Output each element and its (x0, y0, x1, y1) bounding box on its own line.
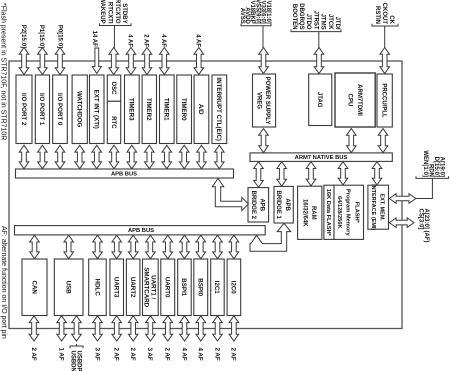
svg-text:BSPI0: BSPI0 (197, 278, 204, 296)
svg-text:JTDI: JTDI (334, 17, 340, 30)
wire JTAG pins to JTAG (318, 33, 320, 48)
arrow APB bus to block at x=34.5 (30, 235, 40, 259)
svg-text:CPU: CPU (346, 94, 352, 107)
label 4 AF timer1 (160, 34, 166, 47)
arrow block to APB bus at x=219.3 (215, 145, 225, 168)
arrow block to APB bus at x=114.0 (109, 145, 119, 168)
arrow CK to PRCCU (380, 48, 390, 74)
svg-text:3 AF: 3 AF (93, 348, 100, 361)
arrow PRCCU to native bus (378, 129, 388, 153)
label group JTAG pins (291, 3, 341, 33)
block USB (54, 259, 83, 316)
arrow bottom pins at x=133.2 (128, 316, 138, 341)
svg-text:JTCK: JTCK (327, 14, 333, 30)
svg-text:CK: CK (388, 15, 394, 24)
label group A[23:0] CS[3:0] (418, 209, 429, 243)
arrow 2AF to TIMER2 (142, 48, 152, 75)
label 3 AF at x=97.5 (93, 348, 100, 361)
block 16K Data FLASH (324, 185, 334, 239)
label 2 AF at x=167.8 (164, 348, 171, 361)
svg-text:2 AF: 2 AF (30, 348, 37, 361)
bus ARM7 NATIVE BUS bar (250, 153, 392, 162)
label group V18 V33 VSS supplies (239, 0, 271, 28)
arrow block to APB bus at x=96.75 (92, 145, 102, 168)
label 4 AF adc (195, 34, 201, 47)
block UART3 (110, 259, 124, 316)
svg-text:OSC: OSC (110, 81, 116, 95)
svg-text:PRCCU/PLL: PRCCU/PLL (381, 83, 387, 118)
svg-text:UART0: UART0 (164, 277, 171, 298)
arrow bottom pins at x=150.4 (146, 316, 156, 341)
svg-text:2 AF: 2 AF (113, 348, 120, 361)
block I2C1 (211, 259, 225, 316)
svg-text:1 AF: 1 AF (57, 348, 64, 361)
svg-text:ARM7TDMI: ARM7TDMI (356, 84, 362, 116)
svg-text:RTCXTO: RTCXTO (114, 0, 120, 24)
svg-text:4 AF: 4 AF (195, 34, 201, 47)
svg-text:P0[15:0]: P0[15:0] (56, 25, 62, 48)
svg-text:BOOTEN: BOOTEN (291, 4, 297, 30)
arrow block to APB bus at x=24.0 (19, 145, 29, 168)
svg-text:APB: APB (259, 198, 265, 211)
svg-text:JTRST: JTRST (312, 11, 318, 30)
arrow block to APB bus at x=166.8 (162, 145, 172, 168)
arrow elbow upper APB bus to APB BRIDGE 2 (212, 179, 248, 211)
label 2 AF at x=217.5 (213, 348, 220, 361)
svg-text:P1[15:0]: P1[15:0] (38, 25, 44, 48)
svg-text:I2C0: I2C0 (230, 281, 237, 295)
svg-text:3 AF: 3 AF (146, 348, 153, 361)
wire V18 group to POWER SUPPLY (262, 27, 264, 48)
svg-text:JTAG: JTAG (316, 92, 322, 108)
arrow native bus to EMI (372, 162, 382, 185)
label 4 AF at x=200.8 (197, 348, 204, 361)
label group A[19:0] D[15:0] RDN WEN (416, 150, 449, 180)
svg-text:P2[15:0]: P2[15:0] (20, 25, 26, 48)
arrow CPU to native bus (347, 129, 357, 153)
arrow bottom pins at x=97.5 (93, 316, 103, 341)
block TIMER1 (160, 75, 175, 144)
svg-text:2 AF: 2 AF (213, 348, 220, 361)
svg-text:HDLC: HDLC (93, 279, 100, 297)
arrow APB bus to block at x=233.9 (229, 235, 239, 259)
arrow native bus to RAM (306, 162, 316, 186)
svg-text:UART3: UART3 (112, 277, 119, 298)
arrow bottom pins at x=233.9 (229, 316, 239, 341)
label 2 AF at x=34.0 (30, 348, 37, 361)
label 4 AF timer3 (127, 34, 133, 47)
block FLASH Program Memory (334, 185, 364, 239)
arrow EMI external bus upper (389, 194, 416, 204)
arrow bottom pins at x=200.8 (196, 316, 206, 341)
block I2C0 (227, 259, 241, 316)
svg-text:SMARTCARD: SMARTCARD (142, 267, 149, 307)
svg-text:I/O PORT 1: I/O PORT 1 (38, 93, 45, 126)
block UART0 (161, 259, 175, 316)
arrow POWER SUPPLY to native bus (259, 129, 269, 153)
block I/O PORT 1 (35, 75, 49, 144)
block UART1 SMARTCARD (142, 259, 158, 316)
label group USBDP USBDN (69, 344, 83, 371)
svg-text:STDBY: STDBY (121, 3, 127, 23)
label P1[15:0] (38, 25, 44, 48)
label group STDBY RTCXTO RTCXTI WAKEUP (99, 0, 131, 28)
svg-text:USBDN: USBDN (69, 351, 75, 371)
svg-text:A/D: A/D (197, 104, 204, 115)
svg-text:Program Memory: Program Memory (345, 189, 351, 237)
svg-text:RAM: RAM (310, 206, 316, 220)
arrow APB bus to block at x=97.5 (93, 235, 103, 259)
arrow native bus to FLASH (338, 162, 348, 185)
svg-text:VREG: VREG (256, 92, 262, 109)
svg-text:CKOUT: CKOUT (381, 3, 387, 25)
label P2[15:0] (20, 25, 26, 48)
svg-text:4 AF: 4 AF (160, 34, 166, 47)
arrow APB bus to block at x=116.7 (112, 235, 122, 259)
label group CK CKOUT RSTIN (372, 3, 398, 28)
arrow native bus to APB BRIDGE 2 (254, 162, 264, 188)
arrow bottom pins at x=61.6 (57, 316, 67, 341)
block EXT INT XTI (90, 75, 105, 144)
arrow pins P0 to I/O PORT 0 (55, 48, 65, 75)
wire chip boundary rectangle (9, 61, 402, 329)
svg-text:64/128/256K: 64/128/256K (336, 196, 342, 229)
block HDLC (89, 259, 107, 316)
block UART2 (126, 259, 139, 316)
svg-text:BSPI1: BSPI1 (180, 278, 187, 296)
block I/O PORT 2 (16, 75, 32, 144)
svg-text:AVSS: AVSS (239, 8, 245, 24)
arrow pins P2 to I/O PORT 2 (19, 48, 29, 75)
label 2 AF at x=133.2 (129, 348, 136, 361)
svg-text:2 AF: 2 AF (143, 34, 149, 47)
svg-text:APB BUS: APB BUS (111, 171, 137, 177)
svg-text:CAN: CAN (30, 280, 37, 294)
block WATCHDOG (72, 75, 87, 144)
block EXT MEM INTERFACE EMI (368, 184, 389, 230)
svg-text:INTERRUPT CTL(EIC): INTERRUPT CTL(EIC) (215, 77, 222, 141)
svg-text:POWER SUPPLY: POWER SUPPLY (264, 77, 270, 125)
svg-text:DBGRQS: DBGRQS (298, 3, 304, 29)
arrow block to APB bus at x=60.0 (55, 145, 65, 168)
bus APB BUS lower bar (15, 226, 266, 235)
arrow pins P1 to I/O PORT 1 (38, 48, 48, 75)
block TIMER0 (177, 75, 192, 144)
arrow APB bus to block at x=133.2 (128, 235, 138, 259)
svg-text:2 AF: 2 AF (129, 348, 136, 361)
svg-text:TIMER3: TIMER3 (128, 98, 135, 121)
block BSPI1 (178, 259, 192, 316)
svg-text:CS[3:0]: CS[3:0] (418, 209, 424, 230)
arrow bottom pins at x=167.8 (163, 316, 173, 341)
arrow APB bus to block at x=150.4 (146, 235, 156, 259)
label 14 AF (91, 31, 97, 47)
svg-text:I2C1: I2C1 (213, 281, 220, 295)
wire CK group to PRCCU (384, 28, 386, 49)
svg-text:APB: APB (284, 198, 290, 211)
block CAN (22, 259, 47, 316)
arrow elbow APB BRIDGE 1 to lower APB bus (250, 223, 291, 251)
svg-text:14 AF: 14 AF (91, 31, 97, 47)
label 3 AF at x=150.4 (146, 348, 153, 361)
block TIMER3 (125, 75, 140, 144)
svg-text:RSTIN: RSTIN (374, 6, 380, 24)
block BSPI0 (194, 259, 208, 316)
svg-text:16/32/64K: 16/32/64K (301, 199, 307, 227)
arrow block to APB bus at x=184.2 (179, 145, 189, 168)
arrow 14 AF into EXT INT (92, 48, 101, 74)
label 4 AF at x=184.5 (180, 348, 187, 361)
label 1 AF at x=61.6 (57, 348, 64, 361)
svg-text:USB: USB (64, 281, 71, 295)
svg-text:UART1 /: UART1 / (150, 275, 157, 299)
block I/O PORT 0 (53, 75, 68, 144)
svg-text:FLASH*: FLASH* (353, 202, 359, 224)
svg-text:WATCHDOG: WATCHDOG (75, 91, 82, 128)
note AF meaning (0, 226, 7, 339)
block ARM7TDMI CPU (335, 73, 375, 127)
arrow block to APB bus at x=79.7 (75, 145, 85, 168)
arrow APB bus to block at x=200.8 (196, 235, 206, 259)
block RAM 16/32/64K (298, 186, 322, 239)
arrow native bus to APB BRIDGE 1 (277, 162, 287, 186)
block INTERRUPT CTL EIC (212, 75, 227, 144)
block TIMER2 (142, 75, 156, 144)
arrow bottom pins at x=76.5 (72, 316, 82, 341)
svg-text:2 AF: 2 AF (230, 348, 237, 361)
block PRCCU/PLL (377, 74, 392, 127)
svg-text:BRIDGE 2: BRIDGE 2 (250, 191, 256, 220)
block POWER SUPPLY VREG (253, 74, 276, 127)
arrow bottom pins at x=184.5 (180, 316, 190, 341)
svg-text:TIMER2: TIMER2 (145, 98, 152, 121)
svg-text:I/O PORT 0: I/O PORT 0 (56, 93, 63, 126)
svg-text:4 AF: 4 AF (180, 348, 187, 361)
arrow supplies to POWER SUPPLY (259, 48, 269, 74)
arrow block to APB bus at x=201.5 (197, 145, 207, 168)
arrow STDBY group to OSC (109, 48, 119, 75)
arrow block to APB bus at x=42.4 (38, 145, 48, 168)
block RTC (107, 101, 120, 143)
svg-text:*Flash present in STR710F, not: *Flash present in STR710F, not in STR710… (0, 3, 6, 140)
svg-text:APB BUS: APB BUS (128, 228, 154, 234)
block APB BRIDGE 2 (248, 188, 269, 222)
svg-text:BRIDGE 1: BRIDGE 1 (275, 191, 281, 220)
block APB BRIDGE 1 (274, 186, 293, 223)
svg-text:EXT INT (XTI): EXT INT (XTI) (93, 90, 100, 129)
svg-text:4 AF: 4 AF (197, 348, 204, 361)
arrow 4AF to TIMER3 (126, 48, 136, 75)
svg-text:AF: alternate function on I/O: AF: alternate function on I/O port pin (0, 226, 7, 339)
svg-text:TIMER0: TIMER0 (180, 98, 187, 121)
arrow block to APB bus at x=131.8 (127, 145, 137, 168)
svg-text:INTERFACE (EMI): INTERFACE (EMI) (370, 184, 376, 230)
arrow 4AF to TIMER1 (160, 48, 170, 75)
svg-text:WAKEUP: WAKEUP (99, 0, 105, 24)
arrow APB bus to block at x=167.8 (163, 235, 173, 259)
wire STDBY to OSC (113, 27, 115, 48)
svg-text:TIMER1: TIMER1 (163, 98, 170, 121)
label 2 AF timer2 (143, 34, 149, 47)
svg-text:2 AF: 2 AF (164, 348, 171, 361)
arrow bottom pins at x=217.5 (213, 316, 223, 341)
arrow EMI external bus lower (389, 218, 414, 228)
svg-text:RTC: RTC (110, 116, 116, 129)
arrow JTAG pins to JTAG block (314, 48, 324, 74)
arrow APB bus to block at x=184.5 (180, 235, 190, 259)
arrow APB bus to block at x=217.5 (213, 235, 223, 259)
label P0[15:0] (56, 25, 62, 48)
svg-text:UART2: UART2 (129, 277, 136, 298)
svg-text:EXT. MEM.: EXT. MEM. (379, 193, 385, 221)
block JTAG (309, 74, 332, 126)
svg-text:JTMS: JTMS (320, 14, 326, 30)
arrow bottom pins at x=34.0 (29, 316, 39, 341)
svg-text:JTDO: JTDO (305, 14, 311, 30)
svg-text:ARM7 NATIVE BUS: ARM7 NATIVE BUS (295, 155, 348, 161)
svg-text:I/O PORT 2: I/O PORT 2 (20, 93, 27, 126)
note flash presence (0, 3, 6, 140)
svg-text:4 AF: 4 AF (127, 34, 133, 47)
wire EMI upper labels elbow (416, 180, 433, 199)
arrow 4AF to A/D (194, 48, 204, 75)
block OSC (107, 75, 120, 101)
label 2 AF at x=116.7 (113, 348, 120, 361)
bus APB BUS upper bar (16, 169, 234, 178)
block A/D (194, 75, 209, 144)
arrow APB bus to block at x=68.7 (64, 235, 74, 259)
arrow block to APB bus at x=149.3 (145, 145, 155, 168)
label 2 AF at x=233.9 (230, 348, 237, 361)
svg-text:16K Data FLASH*: 16K Data FLASH* (325, 189, 331, 237)
svg-text:RTCXTI: RTCXTI (106, 2, 112, 24)
svg-text:WEN[1:0]: WEN[1:0] (422, 150, 428, 177)
arrow bottom pins at x=116.7 (112, 316, 122, 341)
